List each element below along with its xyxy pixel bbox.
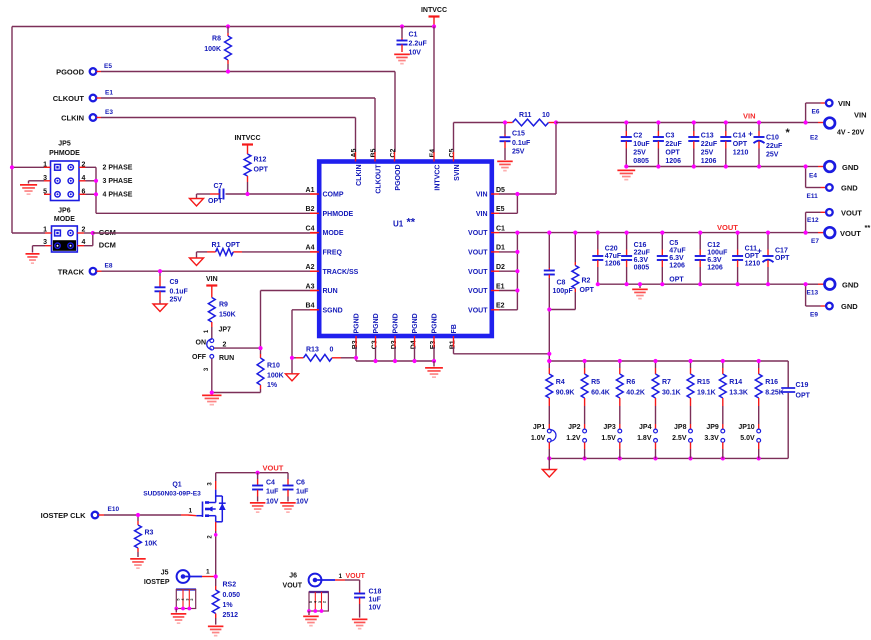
svg-text:1.2V: 1.2V [566,435,581,442]
wire to E12 [805,212,807,232]
svg-text:2 PHASE: 2 PHASE [103,165,133,172]
wire CLKIN [97,117,102,119]
U1 right pin stubs [491,193,499,195]
svg-text:CLKIN: CLKIN [61,114,84,123]
power flag INTVCC top [433,17,435,27]
wire FREQ [310,251,318,253]
svg-text:A5: A5 [351,148,358,157]
svg-text:1.5V: 1.5V [601,435,616,442]
capacitor C5 [661,233,663,250]
svg-text:C16: C16 [634,242,647,249]
node ladder top left [547,359,551,363]
ground C7 [190,199,204,207]
wire PGND pins bus [355,347,357,358]
capacitor C15 [504,123,506,135]
capacitor C1 [401,27,403,39]
svg-text:1uF: 1uF [266,489,279,496]
svg-text:E4: E4 [430,149,437,158]
svg-text:22uF: 22uF [766,143,783,150]
svg-text:B2: B2 [306,206,315,213]
svg-text:1206: 1206 [669,263,685,270]
svg-text:VOUT: VOUT [717,223,738,232]
svg-text:R7: R7 [662,379,671,386]
svg-text:1210: 1210 [745,261,761,268]
ground JP5 [20,184,37,186]
capacitor C18 [359,580,361,591]
svg-text:E3: E3 [105,109,113,116]
svg-text:MODE: MODE [54,216,75,223]
svg-text:TRACK: TRACK [58,268,85,277]
svg-text:8.25K: 8.25K [765,390,784,397]
svg-text:C11: C11 [745,246,758,253]
svg-text:C18: C18 [369,589,382,596]
wire RUN [310,290,318,292]
svg-text:C12: C12 [707,242,720,249]
node C8 top junction [547,231,551,235]
capacitor C16 [626,233,628,250]
svg-text:1.8V: 1.8V [637,435,652,442]
resistor R14 [722,361,724,368]
svg-text:1: 1 [206,569,210,576]
svg-text:FB: FB [451,324,458,333]
wire R11 to VIN pins [555,123,557,195]
resistor R7 [655,361,657,368]
capacitor C7 [226,193,248,195]
node RS2 junction [214,574,218,578]
turret E10 IOSTEP CLK [92,512,99,519]
svg-text:SVIN: SVIN [454,165,461,181]
svg-text:E8: E8 [105,263,113,270]
svg-text:OPT: OPT [665,150,680,157]
svg-text:VOUT: VOUT [841,209,862,218]
wire JP5 pin5 stub [44,193,51,195]
capacitor C20 [597,233,599,250]
node C3 junction [373,359,377,363]
svg-text:PGND: PGND [412,313,419,333]
wire JP5 pins 2-4-6 bus [79,166,86,168]
svg-text:JP1: JP1 [533,424,546,431]
ground C4 [250,502,266,504]
svg-text:VOUT: VOUT [468,269,488,276]
turret E1 CLKOUT [90,95,97,102]
svg-text:E11: E11 [807,193,819,200]
svg-text:PGOOD: PGOOD [56,68,85,77]
wire FB [453,347,455,354]
ground RS2 [208,626,224,628]
node R13-B3 junction [354,356,358,360]
svg-text:CLKOUT: CLKOUT [53,94,85,103]
svg-text:GND: GND [841,184,858,193]
resistor R10 [260,348,262,354]
svg-text:INTVCC: INTVCC [421,7,447,14]
ground J5 [175,609,177,613]
node JP5 pin4 junction [94,179,98,183]
svg-text:2: 2 [323,601,327,603]
svg-text:E10: E10 [108,506,120,513]
wire JP6 pin1 to rail [12,232,45,234]
capacitor C8 [548,233,550,268]
wire to E4 [806,166,818,168]
svg-text:R11: R11 [519,112,532,119]
svg-text:25V: 25V [633,150,646,157]
svg-text:C19: C19 [796,382,809,389]
node C8 bottom junction [547,307,551,311]
svg-text:1: 1 [189,508,193,515]
svg-text:5: 5 [177,598,181,600]
svg-text:OFF: OFF [192,354,207,361]
svg-text:VIN: VIN [206,276,218,283]
node VOUT bus C1 [515,231,519,235]
svg-text:2.5V: 2.5V [672,435,687,442]
resistor R12 [247,150,249,154]
node junction E4 riser [432,24,436,28]
ground SGND [286,374,299,381]
wire JP7 pin3 to ground [211,359,213,393]
wire ladder top rail [548,354,550,361]
capacitor C2 [625,123,627,132]
svg-text:0805: 0805 [634,265,650,272]
svg-text:R3: R3 [145,530,154,537]
svg-text:2: 2 [223,341,227,348]
svg-text:10V: 10V [296,499,309,506]
svg-text:SUD50N03-09P-E3: SUD50N03-09P-E3 [143,491,201,498]
wire to E2 [806,122,818,124]
svg-text:C7: C7 [214,183,223,190]
ground R1 [190,258,204,266]
svg-text:VOUT: VOUT [283,583,303,590]
svg-text:1%: 1% [223,602,234,609]
svg-text:INTVCC: INTVCC [434,165,441,191]
svg-text:0.050: 0.050 [223,592,241,599]
svg-text:Q1: Q1 [172,482,181,489]
svg-text:OPT: OPT [669,277,684,284]
svg-text:22uF: 22uF [634,250,651,257]
svg-text:E6: E6 [812,109,820,116]
ground C6 [280,502,296,504]
wire JP6 pin3 to ground [45,245,52,247]
ground ladder [548,458,550,469]
svg-text:JP8: JP8 [674,424,687,431]
svg-text:R12: R12 [254,157,267,164]
wire VIN D5 [499,193,556,195]
wire to E6 [805,103,807,123]
ground C15 [497,161,513,163]
jumper JP4 [654,429,658,433]
svg-text:0: 0 [330,346,334,353]
turret E11 GND [826,184,833,191]
resistor R16 [758,361,760,368]
svg-text:40.2K: 40.2K [626,390,645,397]
connector J5 IOSTEP [177,570,190,583]
svg-text:E13: E13 [807,290,819,297]
jumper JP2 [583,429,587,433]
svg-text:**: ** [865,223,871,232]
svg-text:GND: GND [841,302,858,311]
svg-text:JP7: JP7 [219,327,232,334]
svg-text:U1: U1 [393,220,404,229]
resistor R13 [292,357,296,359]
svg-text:0.1uF: 0.1uF [170,289,189,296]
svg-text:2.2uF: 2.2uF [409,41,428,48]
svg-text:INTVCC: INTVCC [234,135,260,142]
turret E8 TRACK [90,268,97,275]
resistor R1 [233,251,242,253]
node CCM junction [91,231,95,235]
svg-text:C6: C6 [296,480,305,487]
svg-text:90.9K: 90.9K [556,390,575,397]
node GND2 turret junction [804,282,808,286]
svg-text:C4: C4 [266,480,275,487]
svg-text:A2: A2 [306,264,315,271]
svg-text:10K: 10K [145,541,158,548]
svg-text:IOSTEP CLK: IOSTEP CLK [41,511,86,520]
svg-text:JP4: JP4 [639,424,652,431]
wire SVIN [453,123,455,153]
node COMP junction [245,192,249,196]
wire CLKOUT [97,97,102,99]
svg-text:FREQ: FREQ [323,250,343,257]
wire C8 to FB [548,310,550,354]
svg-text:DCM: DCM [99,241,116,250]
svg-text:1uF: 1uF [296,489,309,496]
connector J6 VOUT [309,574,322,587]
node junction C1 top [400,24,404,28]
resistor R9 [211,292,213,298]
svg-text:R14: R14 [729,379,742,386]
wire to E13 [806,283,818,285]
svg-text:25V: 25V [170,297,183,304]
wire VOUT gnd rail [598,283,806,285]
ground C9 [153,304,167,312]
svg-text:22uF: 22uF [665,141,682,148]
svg-text:VOUT: VOUT [840,229,861,238]
transistor Q1 [196,515,202,517]
svg-text:4 PHASE: 4 PHASE [103,192,133,199]
connector J5 shield [176,588,196,590]
resistor R15 [690,361,692,368]
resistor R5 [584,361,586,368]
svg-text:J5: J5 [161,570,169,577]
wire PHMODE to U1 [96,212,310,214]
svg-text:1206: 1206 [605,261,621,268]
svg-text:VOUT: VOUT [263,464,284,473]
svg-text:RUN: RUN [323,288,338,295]
svg-text:C4: C4 [306,225,315,232]
power flag INTVCC R12 [247,145,249,150]
svg-text:E2: E2 [810,135,818,142]
wire INTVCC rail top-left [11,27,13,234]
svg-text:GND: GND [842,281,859,290]
jumper JP1 [547,429,551,433]
wire VOUT pins bus [499,251,517,253]
svg-text:R10: R10 [267,363,280,370]
svg-text:B4: B4 [306,303,315,310]
node VOUT bus D2 [515,269,519,273]
node junction R8 bottom [226,69,230,73]
svg-text:**: ** [407,217,416,229]
svg-text:PHMODE: PHMODE [323,211,354,218]
node Q1 source dot [214,533,218,537]
svg-text:25V: 25V [512,149,525,156]
svg-text:100pF: 100pF [553,288,574,295]
svg-text:E7: E7 [811,238,819,245]
node FB junction [547,352,551,356]
svg-text:47uF: 47uF [669,248,686,255]
svg-text:VOUT: VOUT [468,250,488,257]
jumper JP8 [689,429,693,433]
svg-text:E4: E4 [809,173,817,180]
wire ladder bottom rail [549,457,788,459]
node C15 junction [503,120,507,124]
wire JP5 pin1 to rail [12,166,44,168]
jumper JP3 [618,429,622,433]
resistor R6 [619,361,621,368]
svg-text:R6: R6 [626,379,635,386]
resistor R3 [137,515,139,521]
turret E13 GND [825,279,836,290]
node VOUT bus E1 [515,288,519,292]
svg-text:100K: 100K [267,373,284,380]
svg-text:3: 3 [318,601,322,603]
svg-text:TRACK/SS: TRACK/SS [323,269,359,276]
svg-text:COMP: COMP [323,192,344,199]
svg-text:B5: B5 [371,148,378,157]
capacitor C6 [287,473,289,479]
wire JP7 pin2 [214,347,261,349]
svg-text:OPT: OPT [796,393,811,400]
svg-text:VIN: VIN [476,192,488,199]
node C9 junction [158,269,162,273]
svg-text:R5: R5 [591,379,600,386]
op-amp U1 body [319,162,492,337]
svg-text:R1: R1 [212,242,221,249]
svg-text:C1: C1 [409,32,418,39]
svg-text:RUN: RUN [219,355,234,362]
svg-text:*: * [786,127,791,139]
wire IOSTEP CLK [99,514,105,516]
resistor R11 [513,119,549,126]
svg-text:OPT: OPT [254,167,269,174]
svg-text:C2: C2 [633,133,642,140]
svg-text:VIN: VIN [743,112,756,121]
wire VIN rail [556,122,806,124]
wire to E11 [805,167,807,188]
svg-text:R4: R4 [556,379,565,386]
ground C18 [352,619,368,621]
svg-text:CLKIN: CLKIN [356,165,363,186]
ground J6 [308,611,310,615]
svg-text:VIN: VIN [476,211,488,218]
wire INTVCC riser to U1 [433,27,435,153]
wire Q1 source [215,522,217,531]
wire R10 to JP7 gnd [212,392,261,394]
wire VIN gnd rail [626,166,805,168]
capacitor C14 [725,123,727,132]
svg-text:10: 10 [542,112,550,119]
svg-text:PGND: PGND [393,313,400,333]
svg-text:SGND: SGND [323,307,343,314]
svg-text:OPT: OPT [208,198,223,205]
svg-text:C3: C3 [665,133,674,140]
U1 left pin stubs [310,193,319,195]
turret E2 VIN [824,118,835,129]
svg-text:PGOOD: PGOOD [395,165,402,191]
svg-text:PGND: PGND [354,313,361,333]
svg-text:1: 1 [339,573,343,580]
svg-text:C5: C5 [449,148,456,157]
node E3 junction [432,359,436,363]
turret E5 PGOOD [90,68,97,75]
svg-text:100uF: 100uF [707,250,728,257]
svg-text:RS2: RS2 [223,582,237,589]
capacitor C17 [767,233,769,250]
svg-text:E12: E12 [807,217,819,224]
capacitor C3 [657,123,659,132]
svg-text:150K: 150K [219,312,236,319]
svg-text:1.0V: 1.0V [531,435,546,442]
svg-text:VOUT: VOUT [468,230,488,237]
svg-text:D2: D2 [496,264,505,271]
ground PGND [433,361,435,367]
node D4 junction [412,359,416,363]
wire VIN E5 [499,212,517,214]
jumper JP10 [757,429,761,433]
svg-text:C10: C10 [766,135,779,142]
turret E9 GND [826,303,833,310]
node VOUT turret junction [804,231,808,235]
svg-text:OPT: OPT [226,242,241,249]
svg-text:J6: J6 [289,573,297,580]
svg-text:VOUT: VOUT [468,288,488,295]
node VOUT gnd tap [638,282,642,286]
node RUN junction [258,346,262,350]
svg-text:PGND: PGND [432,313,439,333]
node C4 junction [256,471,260,475]
svg-text:C17: C17 [775,248,788,255]
svg-text:C1: C1 [496,225,505,232]
svg-text:+: + [748,130,753,139]
capacitor C12 [699,233,701,250]
svg-text:100K: 100K [204,46,221,53]
svg-text:3.3V: 3.3V [704,435,719,442]
wire TRACK/SS [97,270,102,272]
svg-text:1206: 1206 [701,158,717,165]
svg-text:ON: ON [196,340,207,347]
node VIN pins junction [515,192,519,196]
svg-text:C5: C5 [669,240,678,247]
svg-text:PHMODE: PHMODE [49,150,80,157]
svg-text:60.4K: 60.4K [591,390,610,397]
node D3 junction [393,359,397,363]
svg-text:C8: C8 [557,280,566,287]
svg-text:A4: A4 [306,245,315,252]
svg-text:R15: R15 [697,379,710,386]
svg-text:0805: 0805 [633,158,649,165]
wire Q1 drain [215,481,217,490]
svg-text:A3: A3 [306,283,315,290]
power flag VIN R9 [211,286,213,292]
wire COMP [310,193,318,195]
capacitor C13 [693,123,695,132]
svg-text:R9: R9 [219,302,228,309]
svg-text:CLKOUT: CLKOUT [375,164,382,194]
svg-text:E2: E2 [496,303,505,310]
node GND turret junction [804,164,808,168]
svg-text:47uF: 47uF [605,253,622,260]
svg-text:25V: 25V [766,152,779,159]
ground R3 [130,558,146,560]
wire SGND [310,309,318,311]
